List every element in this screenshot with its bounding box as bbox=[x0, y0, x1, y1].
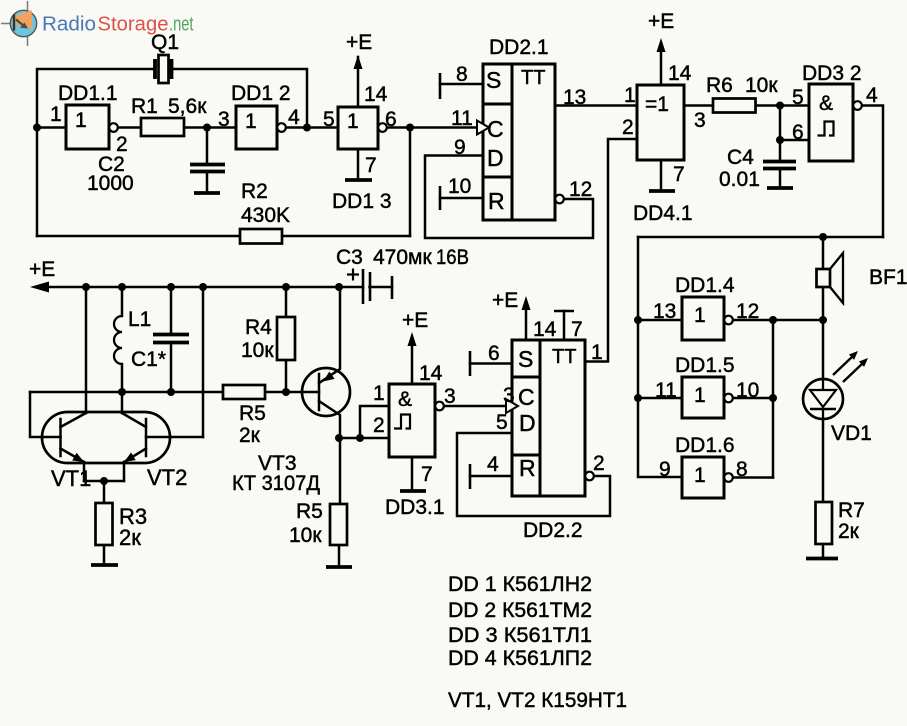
svg-text:R2: R2 bbox=[241, 180, 268, 203]
svg-text:13: 13 bbox=[563, 86, 586, 109]
svg-text:10: 10 bbox=[448, 175, 471, 198]
svg-text:7: 7 bbox=[421, 463, 433, 486]
svg-text:DD 2 К561ТМ2: DD 2 К561ТМ2 bbox=[448, 599, 592, 622]
svg-text:DD1.5: DD1.5 bbox=[675, 354, 735, 377]
svg-text:DD4.1: DD4.1 bbox=[633, 202, 693, 225]
svg-text:D: D bbox=[519, 410, 536, 436]
svg-text:R: R bbox=[488, 188, 505, 214]
svg-text:8: 8 bbox=[456, 63, 468, 86]
svg-text:14: 14 bbox=[668, 62, 692, 85]
svg-text:DD 3 К561ТЛ1: DD 3 К561ТЛ1 bbox=[448, 624, 592, 647]
svg-text:TT: TT bbox=[521, 67, 545, 89]
svg-text:C: C bbox=[518, 384, 535, 410]
svg-text:7: 7 bbox=[571, 318, 583, 341]
svg-text:430K: 430K bbox=[241, 204, 290, 227]
svg-text:D: D bbox=[487, 145, 504, 171]
svg-text:4: 4 bbox=[288, 106, 300, 129]
svg-text:S: S bbox=[518, 346, 533, 372]
svg-text:+E: +E bbox=[346, 31, 372, 54]
svg-text:1: 1 bbox=[75, 109, 87, 132]
svg-text:TT: TT bbox=[552, 346, 576, 368]
svg-text:VT2: VT2 bbox=[147, 465, 187, 490]
svg-text:3: 3 bbox=[218, 108, 230, 131]
svg-text:C3: C3 bbox=[336, 246, 363, 269]
svg-text:КТ 3107Д: КТ 3107Д bbox=[232, 472, 320, 495]
svg-text:C1*: C1* bbox=[131, 348, 166, 371]
svg-text:14: 14 bbox=[364, 83, 388, 106]
svg-text:VD1: VD1 bbox=[831, 422, 872, 445]
svg-text:+E: +E bbox=[29, 258, 55, 281]
svg-text:DD2.2: DD2.2 bbox=[523, 519, 583, 542]
svg-text:R5: R5 bbox=[239, 402, 266, 425]
svg-text:2к: 2к bbox=[838, 520, 860, 543]
svg-text:DD2.1: DD2.1 bbox=[489, 36, 549, 59]
svg-text:R6: R6 bbox=[706, 74, 733, 97]
svg-text:5: 5 bbox=[323, 108, 335, 131]
svg-text:9: 9 bbox=[454, 136, 466, 159]
svg-text:0.01: 0.01 bbox=[719, 168, 760, 191]
svg-text:C4: C4 bbox=[727, 146, 754, 169]
svg-text:2: 2 bbox=[622, 116, 634, 139]
svg-text:+E: +E bbox=[648, 10, 674, 33]
svg-text:3: 3 bbox=[503, 384, 515, 407]
svg-text:12: 12 bbox=[569, 178, 592, 201]
svg-text:Q1: Q1 bbox=[151, 31, 179, 54]
svg-text:5,6к: 5,6к bbox=[168, 95, 207, 118]
svg-text:DD1.4: DD1.4 bbox=[675, 274, 735, 297]
svg-text:DD1.1: DD1.1 bbox=[58, 82, 118, 105]
svg-text:3: 3 bbox=[444, 385, 456, 408]
svg-text:2к: 2к bbox=[239, 424, 261, 447]
svg-text:DD1 3: DD1 3 bbox=[332, 190, 392, 213]
svg-text:L1: L1 bbox=[128, 308, 151, 331]
svg-text:C: C bbox=[487, 116, 504, 142]
svg-text:16В: 16В bbox=[436, 246, 469, 269]
svg-text:11: 11 bbox=[655, 379, 677, 402]
svg-text:4: 4 bbox=[866, 84, 878, 107]
svg-text:14: 14 bbox=[533, 318, 557, 341]
svg-text:2: 2 bbox=[593, 452, 605, 475]
svg-text:5: 5 bbox=[792, 86, 804, 109]
svg-text:6: 6 bbox=[385, 108, 397, 131]
svg-text:1: 1 bbox=[694, 384, 706, 407]
svg-text:VT1: VT1 bbox=[51, 466, 91, 491]
svg-text:7: 7 bbox=[673, 163, 685, 186]
svg-text:470мк: 470мк bbox=[373, 246, 432, 269]
svg-text:DD1 2: DD1 2 bbox=[231, 82, 291, 105]
svg-text:R: R bbox=[519, 455, 536, 481]
svg-text:4: 4 bbox=[487, 453, 499, 476]
svg-text:14: 14 bbox=[419, 362, 443, 385]
svg-text:9: 9 bbox=[659, 458, 671, 481]
svg-text:7: 7 bbox=[365, 154, 377, 177]
svg-text:12: 12 bbox=[736, 300, 759, 323]
svg-text:8: 8 bbox=[736, 458, 748, 481]
svg-text:+E: +E bbox=[402, 309, 428, 332]
svg-text:S: S bbox=[486, 67, 501, 93]
svg-text:1: 1 bbox=[694, 464, 706, 487]
svg-text:11: 11 bbox=[451, 107, 473, 130]
svg-text:1: 1 bbox=[50, 103, 62, 126]
svg-text:1: 1 bbox=[624, 84, 636, 107]
svg-text:1: 1 bbox=[245, 110, 257, 133]
svg-text:1: 1 bbox=[347, 110, 359, 133]
svg-text:6: 6 bbox=[488, 342, 500, 365]
svg-text:1: 1 bbox=[694, 304, 706, 327]
svg-text:3: 3 bbox=[694, 109, 706, 132]
svg-text:10к: 10к bbox=[241, 339, 274, 362]
svg-text:1: 1 bbox=[591, 341, 603, 364]
svg-text:10к: 10к bbox=[289, 524, 322, 547]
svg-text:DD1.6: DD1.6 bbox=[675, 434, 735, 457]
svg-text:&: & bbox=[398, 388, 412, 411]
svg-text:10к: 10к bbox=[745, 74, 778, 97]
svg-text:DD 1 К561ЛН2: DD 1 К561ЛН2 bbox=[448, 573, 592, 596]
svg-text:DD3.1: DD3.1 bbox=[385, 496, 445, 519]
svg-text:1000: 1000 bbox=[87, 172, 134, 195]
svg-text:R7: R7 bbox=[838, 499, 865, 522]
svg-text:R4: R4 bbox=[245, 316, 272, 339]
svg-text:BF1: BF1 bbox=[869, 266, 907, 289]
svg-text:10: 10 bbox=[736, 379, 759, 402]
svg-text:2: 2 bbox=[373, 414, 385, 437]
svg-text:DD 4 К561ЛП2: DD 4 К561ЛП2 bbox=[448, 647, 592, 670]
svg-text:R1: R1 bbox=[131, 95, 158, 118]
svg-text:6: 6 bbox=[792, 121, 804, 144]
svg-text:DD3 2: DD3 2 bbox=[802, 62, 862, 85]
svg-text:5: 5 bbox=[496, 411, 508, 434]
svg-text:1: 1 bbox=[373, 382, 385, 405]
svg-text:&: & bbox=[819, 92, 833, 115]
svg-text:VT1, VT2 К159НТ1: VT1, VT2 К159НТ1 bbox=[448, 689, 627, 712]
svg-text:13: 13 bbox=[653, 300, 676, 323]
svg-text:2к: 2к bbox=[119, 525, 141, 550]
svg-text:=1: =1 bbox=[645, 93, 669, 116]
svg-text:+E: +E bbox=[492, 289, 518, 312]
svg-text:R5: R5 bbox=[296, 500, 323, 523]
